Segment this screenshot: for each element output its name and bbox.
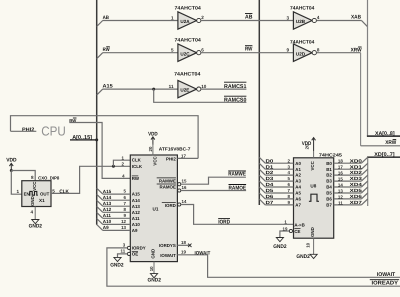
svg-text:RAMWE: RAMWE [228, 171, 246, 177]
wire RW to U2C [103, 52, 178, 54]
label XRW [351, 47, 362, 54]
svg-text:A->B: A->B [294, 223, 304, 228]
ground GND2 osc [29, 220, 42, 230]
U1 pin 11 num [121, 249, 126, 254]
svg-text:B4: B4 [326, 185, 332, 190]
bus entry XAB [362, 21, 368, 27]
U1 pin 3 num [123, 243, 126, 248]
U8 value 74HC245 [319, 153, 343, 158]
U1 ref [153, 207, 159, 212]
ground GND2 U1 [148, 274, 161, 284]
U1 VCC name [152, 156, 157, 166]
svg-text:VCC: VCC [310, 160, 315, 170]
svg-text:OUT: OUT [40, 191, 50, 196]
svg-text:IORD: IORD [218, 219, 230, 225]
U1 pin 15 bubble [178, 183, 181, 186]
wire IORDY long [107, 248, 400, 286]
label RAMWE [228, 171, 246, 177]
svg-text:74AHCT04: 74AHCT04 [290, 5, 315, 11]
bus A (vertical address bus) [96, 0, 98, 225]
svg-text:D1: D1 [266, 164, 274, 169]
svg-text:CLK: CLK [132, 158, 142, 163]
svg-text:U2C: U2C [180, 51, 190, 56]
svg-text:IORDY: IORDY [132, 246, 146, 251]
svg-text:17: 17 [338, 165, 343, 170]
svg-text:A15: A15 [103, 189, 112, 194]
svg-text:74AHCT04: 74AHCT04 [175, 5, 202, 11]
U1 pin 3 bubble [127, 246, 130, 249]
U1 pin 2 num [122, 162, 125, 167]
U8 pin 19 name CE [294, 229, 300, 234]
inverter U2C [178, 44, 201, 61]
label RAMOE [229, 185, 247, 192]
wire RAMCS1 [201, 88, 247, 90]
svg-text:U2A: U2A [180, 19, 190, 24]
wire IORD [181, 205, 294, 225]
wire AB to U2A [103, 20, 178, 22]
U2E value 74AHCT04 [174, 71, 201, 77]
svg-text:11: 11 [121, 249, 126, 254]
svg-text:16: 16 [338, 171, 343, 176]
wire PH2 top [11, 116, 199, 159]
osc pin VCC [32, 181, 37, 191]
label XD[0..7] [374, 152, 395, 158]
svg-text:GND: GND [150, 249, 155, 259]
U1 pin 14 num [182, 199, 187, 204]
svg-text:D4: D4 [266, 182, 274, 187]
svg-text:U8: U8 [310, 184, 316, 189]
wire IOWAIT [177, 255, 400, 277]
svg-text:A2: A2 [295, 173, 301, 178]
svg-text:VDD: VDD [6, 158, 17, 164]
pin numbers 2-9 [288, 158, 291, 205]
bus XD[0..7] [367, 157, 400, 206]
svg-text:RAMOE: RAMOE [160, 185, 176, 190]
no-connect pin 18 [188, 244, 191, 247]
svg-text:ATF16V8BC-7: ATF16V8BC-7 [159, 147, 191, 152]
U1 pin 1 num [122, 155, 125, 160]
U1 pin 17 num [181, 154, 186, 159]
pin 2 [201, 15, 204, 20]
svg-text:3: 3 [286, 16, 289, 21]
crystal glyph [29, 191, 38, 195]
label AB inverted [245, 14, 252, 21]
wire CLK to pin1 [113, 160, 130, 166]
svg-text:A5: A5 [295, 191, 301, 196]
U1 pin 4 name RW [132, 176, 140, 181]
svg-text:A0: A0 [295, 161, 301, 166]
pin 8 [31, 175, 34, 180]
svg-text:13: 13 [121, 225, 126, 230]
pin 11 [169, 84, 174, 89]
oscillator X1 CXO_DIP8 [22, 181, 51, 207]
svg-text:A3: A3 [295, 179, 301, 184]
svg-text:XD5: XD5 [350, 188, 363, 193]
svg-text:20: 20 [305, 144, 310, 149]
bus entry A15 [97, 89, 103, 95]
U8 glyph [309, 194, 319, 201]
junction VDD osc [10, 169, 13, 172]
pin 3 [286, 16, 289, 21]
svg-text:15: 15 [182, 179, 187, 184]
svg-text:13: 13 [338, 188, 343, 193]
svg-text:CXO_DIP8: CXO_DIP8 [38, 176, 60, 181]
svg-text:RW: RW [132, 176, 140, 181]
U8 VCC name [310, 160, 315, 170]
label RW [103, 47, 110, 53]
svg-text:18: 18 [338, 159, 343, 164]
label XAB [351, 14, 361, 20]
U1 pin 18 stub [177, 244, 189, 246]
svg-text:RW: RW [69, 118, 76, 124]
svg-text:U2E: U2E [180, 88, 189, 93]
U8 pin 19 num [283, 226, 288, 231]
U8 pin 1 name A->B [294, 223, 304, 228]
inverter U2A [178, 12, 201, 29]
inverter U2D [293, 44, 316, 61]
junction A15 [152, 88, 155, 91]
svg-text:5: 5 [52, 188, 55, 193]
osc value CXO_DIP8 [38, 176, 60, 181]
pin numbers 5-13 [121, 189, 126, 230]
U1 pin 19 num [181, 250, 186, 255]
svg-text:14: 14 [338, 182, 343, 187]
U1 pin 14 name IORD [162, 203, 176, 208]
power VDD osc [6, 158, 17, 171]
U1 value ATF16V8BC-7 [159, 147, 191, 152]
svg-text:XD3: XD3 [350, 176, 363, 181]
svg-text:4: 4 [317, 15, 320, 20]
ground GND2 OE [110, 257, 123, 268]
svg-text:IORDYS: IORDYS [159, 243, 176, 248]
osc pin 4 wire [34, 207, 36, 220]
svg-text:ICLK: ICLK [132, 164, 143, 169]
svg-text:IOREADY: IOREADY [372, 280, 399, 286]
svg-text:74AHCT04: 74AHCT04 [174, 71, 201, 77]
svg-text:IOWAIT: IOWAIT [377, 272, 396, 278]
svg-text:15: 15 [338, 177, 343, 182]
svg-text:B6: B6 [326, 197, 332, 202]
svg-text:AB: AB [245, 14, 252, 20]
wire XRW [316, 53, 400, 146]
svg-text:XRW: XRW [385, 140, 396, 146]
sheet name CPU [41, 123, 66, 138]
transceiver U8 74HC245 [294, 158, 334, 238]
wire A15 to U2E [103, 88, 178, 90]
svg-text:B1: B1 [326, 167, 332, 172]
label IOWAIT right [377, 272, 396, 278]
svg-text:XD1: XD1 [350, 164, 363, 169]
svg-text:XD0: XD0 [350, 158, 363, 163]
wire A15 branch down [154, 89, 247, 102]
svg-text:GND: GND [310, 227, 315, 237]
osc pin GND [30, 196, 35, 206]
wire OE to gnd [118, 254, 128, 257]
label XRW right [385, 140, 396, 147]
svg-text:A9: A9 [103, 225, 109, 230]
U8 ref [310, 184, 316, 189]
svg-text:X1: X1 [39, 198, 45, 203]
U1 pin 18 name IORDYS [159, 243, 176, 248]
svg-text:PHI2: PHI2 [22, 127, 35, 133]
svg-text:XD[0..7]: XD[0..7] [374, 152, 395, 158]
svg-text:XAB: XAB [351, 14, 361, 20]
svg-text:A12: A12 [132, 210, 141, 215]
U1 pin 4 num [122, 174, 125, 179]
svg-text:U2B: U2B [296, 19, 306, 24]
svg-text:8: 8 [317, 47, 320, 52]
svg-text:XD7: XD7 [350, 200, 363, 205]
pin 4 [317, 15, 320, 20]
svg-text:D0: D0 [266, 158, 274, 163]
svg-text:1: 1 [171, 16, 174, 21]
label CLK [59, 189, 69, 195]
svg-text:A1: A1 [295, 167, 301, 172]
svg-text:18: 18 [181, 240, 186, 245]
wire CE to gnd [280, 231, 289, 237]
svg-text:D6: D6 [266, 194, 274, 199]
wire U2A out to U2B [201, 20, 294, 22]
svg-text:RAMOE: RAMOE [229, 186, 247, 192]
svg-text:2: 2 [201, 15, 204, 20]
svg-text:B3: B3 [326, 179, 332, 184]
svg-text:11: 11 [169, 84, 174, 89]
svg-text:XD4: XD4 [350, 182, 363, 187]
junction A bus [95, 138, 98, 141]
svg-text:A13: A13 [103, 201, 112, 206]
U1 pin 18 num [181, 240, 186, 245]
svg-text:D5: D5 [266, 188, 274, 193]
osc ref X1 [39, 198, 45, 203]
svg-text:74HC245: 74HC245 [319, 153, 343, 158]
U2A value 74AHCT04 [175, 5, 202, 11]
svg-text:11: 11 [338, 200, 343, 205]
wire VDD to osc VCC [11, 171, 35, 181]
U1 pin names A15-A9 [132, 192, 141, 233]
svg-text:8: 8 [31, 175, 34, 180]
U8 pin names B0-B7 [326, 161, 332, 208]
bus entry AB [97, 21, 103, 27]
ground GND2 CE [273, 238, 286, 251]
label PHI2 [11, 127, 37, 133]
svg-text:14: 14 [182, 199, 187, 204]
svg-text:IOWAIT: IOWAIT [160, 253, 176, 258]
U1 pin 3 name IORDY [132, 246, 146, 251]
pin 5 OUT [52, 188, 55, 193]
inverter U2E [178, 80, 201, 97]
wires A15-A9 [103, 194, 131, 230]
labels A15-A9 [103, 189, 112, 230]
svg-text:A7: A7 [295, 203, 301, 208]
svg-text:A15: A15 [132, 192, 141, 197]
svg-text:RW: RW [245, 47, 253, 53]
svg-text:A[0..15]: A[0..15] [72, 134, 92, 141]
label RAMCS1 [224, 82, 246, 90]
svg-text:A9: A9 [132, 228, 138, 233]
U8 pin 20 wire [305, 144, 314, 158]
osc pin OUT [40, 191, 50, 196]
bus A[0..15] from CPU [70, 139, 97, 141]
svg-text:PHI2: PHI2 [166, 156, 176, 161]
power VDD U8 [302, 138, 316, 151]
wire RW cpu to U1 [69, 123, 130, 179]
U1 pin 19 name IOWAIT [160, 253, 176, 258]
U8 pin names A0-A7 [295, 161, 301, 208]
pin 9 [286, 48, 289, 53]
svg-text:XA[0..8]: XA[0..8] [375, 131, 395, 137]
svg-text:U1: U1 [153, 207, 159, 212]
labels XD0-XD7 [350, 158, 363, 205]
svg-text:A14: A14 [132, 198, 141, 203]
svg-text:10: 10 [306, 242, 311, 247]
label IOWAIT near U1 [195, 250, 211, 256]
bus entries D0-D7 [259, 157, 265, 205]
svg-text:D2: D2 [266, 170, 274, 175]
svg-text:CPU: CPU [41, 123, 66, 138]
svg-text:A12: A12 [103, 207, 112, 212]
svg-text:B7: B7 [326, 203, 332, 208]
bus XA[0..8] [367, 0, 400, 136]
label A15 [103, 84, 114, 90]
U1 pin 20 VCC [148, 144, 153, 156]
svg-text:RAMCS1: RAMCS1 [224, 84, 246, 90]
pin numbers 18-11 [338, 159, 343, 206]
svg-text:A11: A11 [103, 213, 112, 218]
svg-text:74AHCT04: 74AHCT04 [175, 38, 202, 44]
power VDD U1 [148, 132, 158, 145]
U2D value 74AHCT04 [290, 40, 315, 46]
U1 pin 15 num [182, 179, 187, 184]
wires XD0-XD7 [334, 163, 362, 205]
pin 6 [201, 47, 204, 52]
svg-text:A13: A13 [132, 204, 141, 209]
U1 pin 2 name ICLK [132, 164, 143, 169]
svg-text:RAMCS0: RAMCS0 [224, 98, 246, 104]
svg-text:1: 1 [16, 189, 19, 194]
pin 4 [30, 210, 33, 215]
svg-text:12: 12 [121, 219, 126, 224]
labels D0-D7 [266, 158, 274, 205]
wire VDD to osc EN [11, 171, 21, 195]
wire CLK [51, 166, 130, 193]
svg-text:GND2: GND2 [273, 244, 286, 250]
wire U2C out to U2D [201, 52, 294, 54]
svg-text:B0: B0 [326, 161, 332, 166]
bus D (vertical data bus) [258, 0, 260, 205]
label IOREADY [370, 280, 399, 287]
svg-text:U2D: U2D [296, 51, 306, 56]
U1 pin 15 name RAMWE [157, 178, 176, 184]
label IORD [218, 219, 230, 226]
U8 pin 10 wire [306, 238, 314, 255]
svg-text:12: 12 [338, 194, 343, 199]
svg-text:XRW: XRW [351, 48, 362, 54]
inverter U2B [293, 12, 316, 29]
svg-text:9: 9 [286, 48, 289, 53]
U1 pin 11 name OE [132, 252, 138, 257]
bus entries A15-A9 [97, 188, 103, 230]
U8 GND name [310, 227, 315, 237]
wires D0-D7 [265, 163, 293, 205]
U2B value 74AHCT04 [290, 5, 315, 11]
U8 pin 19 bubble [289, 229, 292, 232]
svg-text:19: 19 [181, 250, 186, 255]
svg-text:B2: B2 [326, 173, 332, 178]
wire RAMWE [181, 177, 246, 184]
svg-text:CE: CE [294, 229, 300, 234]
svg-text:6: 6 [201, 47, 204, 52]
svg-text:XD2: XD2 [350, 170, 363, 175]
svg-text:A4: A4 [295, 185, 301, 190]
svg-text:EN: EN [24, 192, 30, 197]
label RW cpu [69, 118, 76, 124]
svg-text:10: 10 [149, 266, 154, 271]
label AB [103, 15, 110, 21]
svg-text:A6: A6 [295, 197, 301, 202]
svg-text:10: 10 [201, 84, 207, 89]
osc pin EN [24, 192, 30, 197]
wire RAMOE [181, 190, 246, 192]
svg-text:GND: GND [30, 196, 35, 206]
U1 GND name [150, 249, 155, 259]
svg-text:OE: OE [132, 252, 138, 257]
bus entries XD0-XD7 [361, 157, 367, 205]
U2C value 74AHCT04 [175, 38, 202, 44]
U1 pin 1 name CLK [132, 158, 142, 163]
label A[0..15] [72, 134, 92, 141]
svg-text:A10: A10 [132, 222, 141, 227]
svg-text:XD6: XD6 [350, 194, 363, 199]
pin 8 [317, 47, 320, 52]
svg-text:D7: D7 [266, 200, 274, 205]
pin 5 [171, 48, 174, 53]
svg-text:GND2: GND2 [29, 223, 42, 229]
U1 pin 16 bubble [178, 189, 181, 192]
pin 1 [171, 16, 174, 21]
svg-text:16: 16 [182, 185, 187, 190]
ground GND2 U8 [296, 254, 317, 260]
junction CLK [112, 165, 115, 168]
svg-text:GND2: GND2 [110, 263, 123, 269]
svg-text:B5: B5 [326, 191, 332, 196]
svg-text:20: 20 [148, 146, 153, 151]
svg-text:GND2: GND2 [296, 254, 309, 260]
svg-text:5: 5 [171, 48, 174, 53]
PLD U1 ATF16V8 [130, 155, 177, 262]
svg-text:4: 4 [30, 210, 33, 215]
U1 pin 16 num [182, 185, 187, 190]
svg-text:RAMWE: RAMWE [159, 179, 176, 184]
svg-text:IORD: IORD [165, 203, 176, 208]
U1 pin 16 name RAMOE [157, 184, 176, 190]
svg-text:CLK: CLK [59, 189, 69, 195]
wire XAB [316, 20, 361, 22]
svg-text:A14: A14 [103, 195, 112, 200]
U8 pin 1 num [284, 220, 287, 225]
U1 pin 14 bubble [178, 203, 181, 206]
svg-text:VCC: VCC [32, 181, 37, 191]
svg-text:A11: A11 [132, 216, 140, 221]
label XA[0..8] [375, 131, 395, 137]
svg-text:IOWAIT: IOWAIT [195, 250, 211, 256]
pin 1 EN [16, 189, 19, 194]
svg-text:D3: D3 [266, 176, 274, 181]
svg-text:VCC: VCC [152, 156, 157, 166]
svg-text:A10: A10 [103, 219, 112, 224]
pin 10 [201, 84, 207, 89]
U1 pin 17 wire [177, 157, 198, 159]
bus entry RW [97, 53, 103, 59]
